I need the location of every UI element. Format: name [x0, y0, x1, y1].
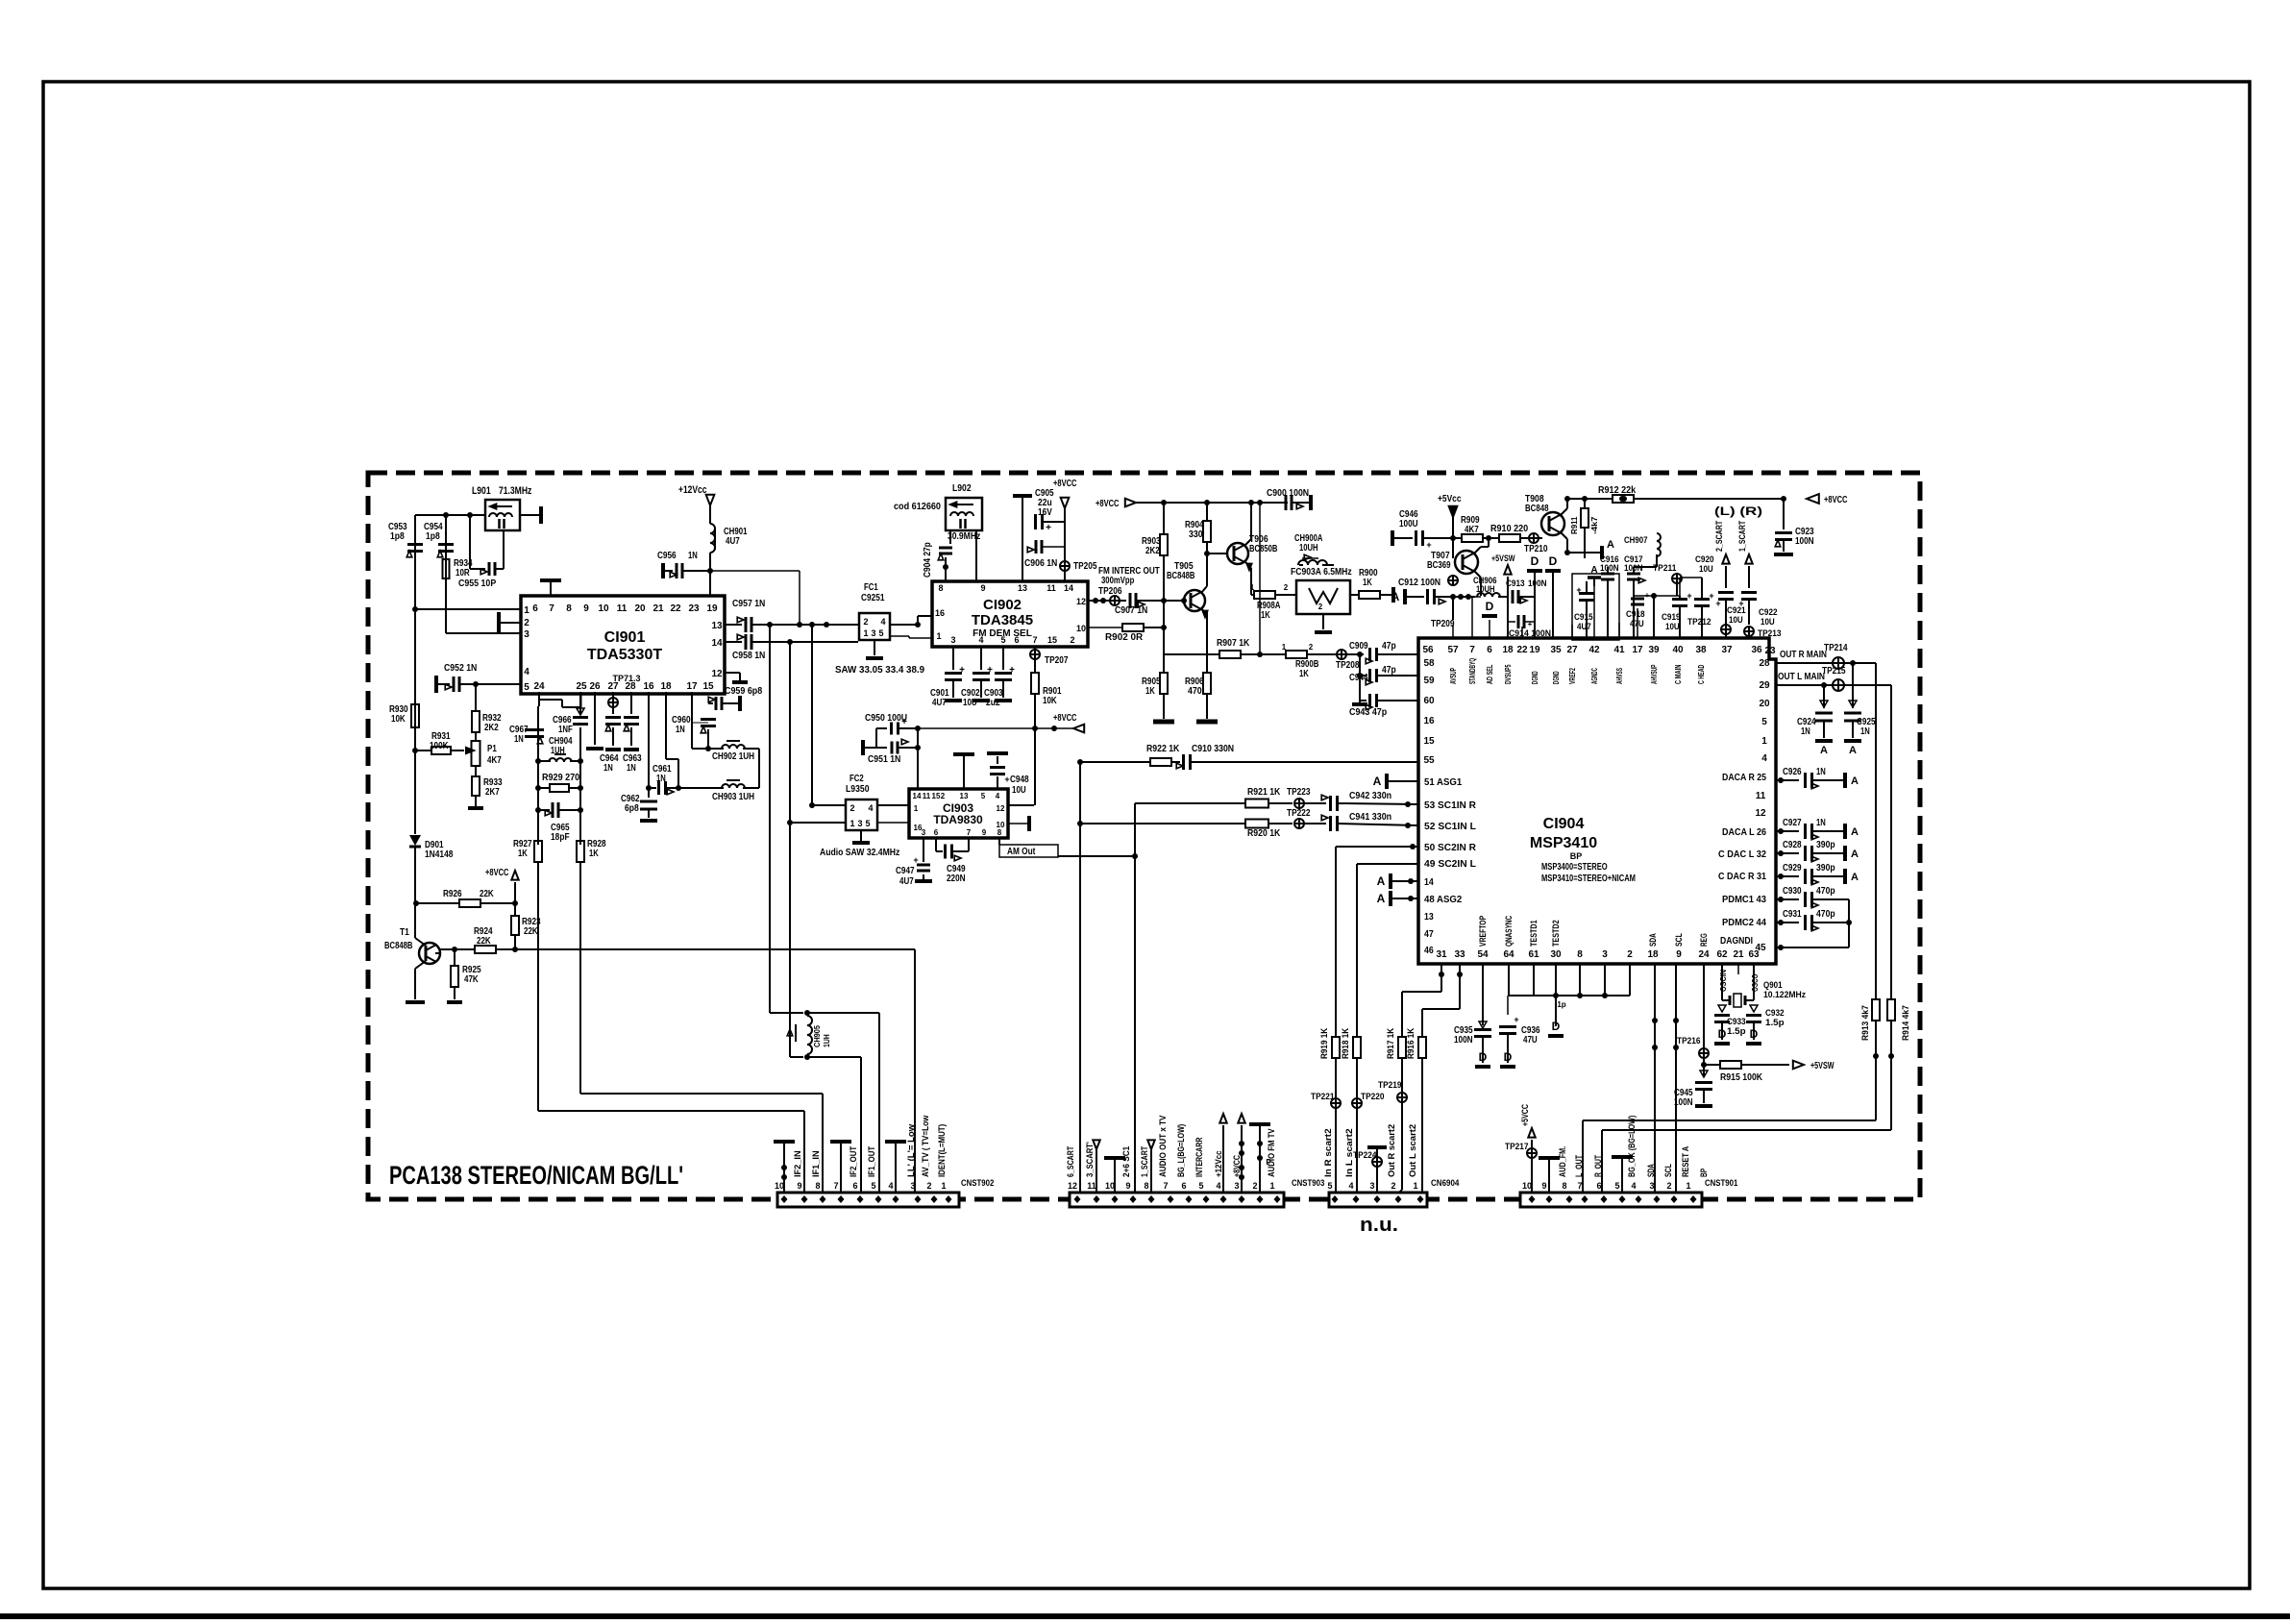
svg-text:R918 1K: R918 1K: [1341, 1027, 1350, 1059]
svg-text:55: 55: [1423, 755, 1435, 766]
svg-text:22K: 22K: [524, 926, 538, 937]
svg-text:SAW 33.05 33.4 38.9: SAW 33.05 33.4 38.9: [835, 665, 925, 676]
wire REG column to TP216: [1703, 964, 1705, 1047]
svg-text:REG: REG: [1699, 933, 1709, 947]
capacitor C907 1N: [1129, 593, 1132, 608]
svg-text:1K: 1K: [1299, 669, 1309, 679]
inductor CH903 1UH: [716, 787, 724, 789]
svg-text:2: 2: [1318, 603, 1323, 611]
svg-text:4: 4: [996, 792, 1000, 800]
resistor R914 4k7: [1887, 999, 1895, 1021]
resistor R920 1K / TP222 / capacitor C941 330n row: [1080, 823, 1246, 824]
svg-text:60: 60: [1423, 696, 1435, 706]
svg-text:1K: 1K: [518, 849, 528, 859]
svg-text:D: D: [1750, 1027, 1759, 1041]
svg-text:TP214: TP214: [1824, 643, 1848, 653]
svg-text:1: 1: [914, 804, 919, 813]
svg-text:22: 22: [1516, 645, 1528, 655]
svg-text:8: 8: [1562, 1181, 1566, 1191]
capacitor C921 10U: [1718, 591, 1734, 594]
svg-text:5: 5: [1614, 1181, 1619, 1191]
wire from C957 node down column 801: [769, 625, 771, 1013]
svg-text:2: 2: [850, 803, 854, 813]
svg-text:2K2: 2K2: [484, 723, 499, 733]
svg-text:STANDBYQ: STANDBYQ: [1467, 658, 1477, 684]
svg-text:INTERCARR: INTERCARR: [1194, 1137, 1204, 1177]
svg-text:61: 61: [1528, 949, 1539, 960]
svg-text:100N: 100N: [1674, 1097, 1693, 1108]
svg-text:A: A: [1851, 872, 1859, 883]
svg-text:6: 6: [532, 603, 538, 614]
svg-text:4U7: 4U7: [932, 698, 947, 708]
svg-text:(L) (R): (L) (R): [1714, 504, 1762, 518]
svg-text:1UH: 1UH: [823, 1034, 831, 1047]
svg-text:330: 330: [1189, 529, 1203, 540]
svg-text:D: D: [1479, 1050, 1488, 1064]
svg-text:CNST903: CNST903: [1292, 1178, 1324, 1188]
svg-text:6: 6: [1181, 1181, 1186, 1191]
svg-text:MSP3410: MSP3410: [1530, 835, 1597, 851]
svg-text:TDA3845: TDA3845: [972, 612, 1033, 628]
svg-text:AUDIO FM TV: AUDIO FM TV: [1267, 1128, 1276, 1177]
capacitor C961 1N: [649, 787, 656, 789]
svg-text:A: A: [1607, 539, 1614, 551]
capacitor C919 10U: [1672, 598, 1687, 601]
ground bar pin25: [580, 692, 582, 707]
svg-text:15: 15: [702, 681, 714, 692]
svg-text:C912 100N: C912 100N: [1398, 578, 1440, 588]
wire OUT L MAIN / TP215: [1776, 684, 1891, 686]
svg-text:4U7: 4U7: [726, 536, 740, 547]
testpoint TP220: [1352, 1098, 1362, 1108]
svg-text:A: A: [1849, 745, 1857, 756]
svg-text:23: 23: [1764, 646, 1776, 656]
svg-text:+5VCC: +5VCC: [1520, 1104, 1530, 1126]
svg-text:10K: 10K: [1043, 696, 1057, 706]
ground above CNST903 pin2: [1259, 1126, 1261, 1193]
svg-text:1p: 1p: [1557, 1000, 1565, 1009]
node C950/C951 down to CI903 pin14: [917, 728, 919, 789]
capacitor C949 220N: [935, 838, 937, 851]
svg-text:2: 2: [1391, 1181, 1395, 1191]
svg-text:3: 3: [1234, 1181, 1239, 1191]
svg-text:18: 18: [1647, 949, 1659, 960]
svg-text:3: 3: [1602, 949, 1608, 960]
wire pins 54-2 bus: [1482, 964, 1484, 996]
svg-text:6: 6: [852, 1181, 857, 1191]
svg-text:FC2: FC2: [850, 774, 864, 784]
svg-text:1N4148: 1N4148: [425, 849, 454, 860]
svg-text:+: +: [901, 717, 907, 727]
svg-text:AUDIO OUT x TV: AUDIO OUT x TV: [1158, 1116, 1168, 1177]
inductor CH901 4U7: [710, 524, 715, 553]
svg-text:TP216: TP216: [1677, 1036, 1701, 1046]
svg-text:11: 11: [617, 603, 628, 614]
diode D901 1N4148: [409, 835, 421, 846]
svg-text:D: D: [1549, 554, 1558, 568]
svg-text:BG_L(BG=LOW): BG_L(BG=LOW): [1176, 1124, 1186, 1177]
wire SCL column: [1675, 964, 1677, 1193]
svg-text:OUT L MAIN: OUT L MAIN: [1778, 672, 1825, 682]
svg-text:6: 6: [1596, 1181, 1601, 1191]
svg-text:TP220: TP220: [1361, 1092, 1385, 1101]
IC CI902 TDA3845: [932, 581, 1088, 647]
box around C915/VREF2: [1572, 574, 1619, 640]
svg-text:47p: 47p: [1382, 641, 1396, 652]
svg-text:C932: C932: [1765, 1008, 1785, 1018]
wire OUT R MAIN / TP214: [1776, 662, 1876, 664]
svg-text:2_SCART: 2_SCART: [1714, 520, 1724, 552]
svg-text:1_SCART: 1_SCART: [1737, 520, 1747, 552]
svg-text:C HEAD: C HEAD: [1696, 665, 1706, 684]
1_SCART arrow above pin8: [1147, 1140, 1154, 1149]
transistor T905 BC848B: [1184, 590, 1205, 611]
svg-text:C929: C929: [1783, 863, 1802, 874]
ground below T1: [406, 1000, 425, 1004]
svg-text:26: 26: [589, 681, 601, 692]
IC CI901 TDA5330T: [521, 596, 725, 694]
svg-text:50 SC2IN R: 50 SC2IN R: [1424, 843, 1477, 853]
svg-text:48 ASG2: 48 ASG2: [1424, 895, 1463, 905]
svg-text:10: 10: [1105, 1181, 1115, 1191]
svg-text:1N: 1N: [676, 725, 685, 735]
svg-text:C906 1N: C906 1N: [1024, 558, 1057, 569]
transistor T906 BC850B: [1227, 543, 1248, 564]
AM Out label box: [998, 838, 1000, 845]
ground CI903 pin10: [1008, 823, 1027, 824]
svg-text:A: A: [1391, 590, 1400, 603]
svg-text:CI902: CI902: [983, 597, 1022, 613]
svg-text:1.5p: 1.5p: [1765, 1018, 1785, 1027]
svg-text:18: 18: [660, 681, 672, 692]
svg-text:11: 11: [1756, 791, 1766, 801]
svg-text:64: 64: [1503, 949, 1514, 960]
svg-text:R922 1K: R922 1K: [1146, 744, 1180, 754]
svg-text:35: 35: [1550, 645, 1562, 655]
svg-text:C910 330N: C910 330N: [1192, 744, 1234, 754]
IC CI903 TDA9830: [909, 789, 1008, 838]
capacitor C936 47U: [1507, 996, 1509, 1015]
svg-text:4: 4: [1216, 1181, 1220, 1191]
svg-text:1p8: 1p8: [426, 531, 440, 542]
svg-text:31: 31: [1436, 949, 1447, 960]
testpoint TP207 / resistor R901 10K: [1034, 647, 1036, 650]
svg-text:7: 7: [1163, 1181, 1168, 1191]
svg-text:TESTD1: TESTD1: [1529, 920, 1539, 947]
svg-text:TP206: TP206: [1098, 586, 1122, 597]
svg-text:VREF2: VREF2: [1567, 668, 1577, 684]
wire CH900A down to R908A node: [1250, 575, 1252, 595]
svg-text:AGNDC: AGNDC: [1589, 668, 1599, 684]
svg-text:18: 18: [1502, 645, 1514, 655]
svg-text:R910 220: R910 220: [1490, 524, 1529, 534]
svg-text:C948: C948: [1010, 775, 1029, 785]
svg-text:TP217: TP217: [1505, 1142, 1529, 1151]
transistor T1 BC848B: [419, 943, 440, 964]
capacitor C931 470p: [1776, 922, 1799, 923]
svg-text:D: D: [1486, 600, 1494, 613]
wires Out scart2 columns: [1397, 1193, 1399, 1195]
page bottom edge strip: [0, 1613, 2290, 1619]
testpoint TP213: [1744, 627, 1754, 636]
testpoint TP205: [1060, 561, 1070, 571]
svg-text:n.u.: n.u.: [1360, 1215, 1398, 1236]
resistor R933 2K7: [475, 767, 477, 776]
svg-text:A: A: [1820, 745, 1828, 756]
svg-text:41: 41: [1613, 645, 1625, 655]
filter FC1 C9251: [859, 613, 890, 640]
svg-text:C904 27p: C904 27p: [923, 542, 933, 578]
svg-text:C959 6p8: C959 6p8: [725, 686, 763, 697]
connector CN6904: [1329, 1193, 1427, 1207]
svg-text:390p: 390p: [1816, 840, 1835, 850]
svg-text:DVSUP5: DVSUP5: [1503, 664, 1513, 684]
svg-text:FC903A 6.5MHz: FC903A 6.5MHz: [1291, 567, 1352, 578]
svg-text:+: +: [959, 665, 965, 676]
svg-text:20: 20: [634, 603, 646, 614]
svg-text:TP212: TP212: [1687, 617, 1711, 627]
svg-text:10U: 10U: [1012, 785, 1026, 796]
svg-text:4: 4: [524, 667, 529, 677]
svg-text:IF1_OUT: IF1_OUT: [867, 1145, 876, 1177]
svg-text:TP209: TP209: [1431, 619, 1455, 629]
svg-text:+: +: [1709, 591, 1713, 601]
svg-text:11: 11: [1087, 1181, 1096, 1191]
resistor R905 1K: [1163, 601, 1165, 673]
svg-text:7: 7: [1577, 1181, 1582, 1191]
svg-text:CN6904: CN6904: [1431, 1178, 1459, 1188]
wire pin16 down: [648, 692, 650, 788]
svg-text:7: 7: [967, 828, 972, 837]
long wire OUT L column: [1890, 685, 1892, 999]
ground A at pin 14: [1389, 874, 1392, 889]
svg-text:C915: C915: [1574, 612, 1593, 622]
svg-text:5: 5: [871, 1181, 875, 1191]
svg-text:2: 2: [1284, 583, 1289, 592]
svg-text:100N: 100N: [1795, 536, 1814, 547]
wire T906 collector to +8VCC: [1250, 503, 1252, 524]
svg-text:R926: R926: [443, 889, 462, 899]
wire from C958 node down column 822: [789, 642, 791, 1057]
svg-text:6: 6: [1014, 635, 1019, 645]
svg-text:TP208: TP208: [1336, 660, 1360, 671]
svg-text:1: 1: [863, 628, 868, 638]
svg-text:27: 27: [607, 681, 619, 692]
svg-text:51 ASG1: 51 ASG1: [1424, 777, 1463, 788]
svg-text:14: 14: [1424, 877, 1434, 888]
wire CH905 top to IF1_OUT column: [807, 1012, 879, 1014]
+8VCC arrow right of R901: [1051, 726, 1057, 731]
svg-text:9: 9: [1541, 1181, 1546, 1191]
svg-text:21: 21: [1733, 949, 1744, 960]
svg-text:C DAC R 31: C DAC R 31: [1718, 872, 1766, 882]
svg-text:R917 1K: R917 1K: [1386, 1027, 1395, 1059]
capacitor C958 1N: [725, 641, 742, 643]
wire IF2_IN column to R927: [803, 1111, 805, 1193]
svg-text:CI901: CI901: [604, 629, 646, 646]
capacitor C933 1.5p: [1718, 1005, 1726, 1012]
svg-text:CH907: CH907: [1624, 535, 1648, 545]
svg-text:3: 3: [857, 819, 862, 828]
svg-text:AHVSS: AHVSS: [1614, 668, 1624, 684]
svg-text:P1: P1: [487, 744, 497, 754]
svg-text:C920: C920: [1695, 554, 1714, 564]
testpoint pin27: [612, 692, 614, 698]
svg-text:45: 45: [1755, 943, 1766, 953]
svg-text:C928: C928: [1783, 840, 1802, 850]
svg-text:D: D: [1718, 1027, 1727, 1041]
connector CNST902: [777, 1193, 959, 1207]
svg-text:3: 3: [1649, 1181, 1654, 1191]
capacitor C947 4U7: [923, 838, 924, 862]
svg-text:DGND: DGND: [1530, 671, 1539, 684]
svg-text:IF1_IN: IF1_IN: [811, 1150, 821, 1177]
svg-text:8: 8: [997, 828, 1002, 837]
svg-text:20: 20: [1759, 699, 1770, 709]
svg-text:IDENT(L=MUT): IDENT(L=MUT): [937, 1124, 947, 1177]
svg-text:1N: 1N: [627, 763, 636, 774]
wire FC1 node column down to FC2: [811, 625, 813, 805]
svg-text:1N: 1N: [1816, 767, 1826, 777]
wire L901 bus: [415, 514, 485, 516]
resistor R900 1K: [1350, 594, 1359, 596]
svg-text:+: +: [1426, 540, 1431, 550]
capacitor C964 1N: [612, 707, 614, 714]
capacitor C945 100N: [1700, 1070, 1708, 1077]
svg-text:SCL: SCL: [1674, 933, 1684, 947]
ground A above C915: [1588, 576, 1601, 579]
svg-text:470: 470: [1188, 686, 1202, 697]
svg-text:2: 2: [1252, 1181, 1257, 1191]
svg-text:+: +: [987, 665, 993, 676]
svg-text:Audio SAW 32.4MHz: Audio SAW 32.4MHz: [820, 848, 899, 858]
svg-text:C942 330n: C942 330n: [1349, 791, 1391, 801]
svg-text:MSP3400=STEREO: MSP3400=STEREO: [1541, 862, 1608, 873]
svg-text:13: 13: [1018, 583, 1027, 593]
svg-text:10U: 10U: [1665, 622, 1680, 631]
svg-text:16V: 16V: [1038, 507, 1052, 518]
svg-text:62: 62: [1716, 949, 1728, 960]
svg-text:TP219: TP219: [1378, 1080, 1402, 1090]
svg-text:5: 5: [878, 628, 883, 638]
resistor R921 1K / TP223 / capacitor C942 330n row: [1135, 802, 1246, 804]
svg-text:OSCIN: OSCIN: [1719, 970, 1728, 992]
svg-text:40: 40: [1672, 645, 1684, 655]
svg-text:BC369: BC369: [1427, 560, 1451, 571]
svg-text:R921 1K: R921 1K: [1247, 787, 1281, 798]
wire R912 column to C912 row: [1452, 499, 1454, 538]
wire OUT R return to L_OUT column: [1583, 1120, 1876, 1121]
svg-text:4: 4: [1761, 753, 1767, 764]
svg-text:7: 7: [1469, 645, 1475, 655]
filter FC2 L9350: [846, 800, 877, 830]
wire C930/C931 to pin45: [1848, 899, 1850, 947]
wire C961 to CH903: [677, 787, 679, 789]
svg-text:TDA9830: TDA9830: [933, 813, 983, 826]
svg-text:R920 1K: R920 1K: [1247, 828, 1281, 839]
wire R907 node column: [1259, 503, 1261, 654]
svg-text:1: 1: [1413, 1181, 1417, 1191]
capacitor C904 27p: [949, 530, 951, 544]
svg-text:R_OUT: R_OUT: [1593, 1155, 1603, 1177]
svg-text:1N: 1N: [1860, 726, 1870, 737]
svg-text:R907 1K: R907 1K: [1217, 638, 1250, 649]
filter FC903A 6.5MHz: [1296, 580, 1350, 614]
capacitor C906 1N: [1022, 522, 1023, 547]
svg-text:13: 13: [1424, 912, 1434, 923]
svg-text:22K: 22K: [480, 889, 494, 899]
wire 2_SCART/1_SCART caps to pins: [1725, 634, 1727, 638]
ground on CI901 top: [550, 580, 552, 596]
svg-text:IF2_OUT: IF2_OUT: [849, 1145, 858, 1177]
svg-text:3: 3: [950, 635, 955, 645]
svg-text:100N: 100N: [1600, 563, 1619, 573]
svg-text:-4k7: -4k7: [1590, 516, 1599, 534]
svg-text:CH902 1UH: CH902 1UH: [712, 751, 754, 762]
svg-text:54: 54: [1477, 949, 1489, 960]
svg-text:10.122MHz: 10.122MHz: [1763, 990, 1807, 999]
+12Vcc arrow above pin4: [1219, 1114, 1226, 1123]
svg-text:C951 1N: C951 1N: [868, 754, 900, 765]
svg-text:47U: 47U: [1523, 1035, 1538, 1046]
svg-text:24: 24: [1698, 949, 1710, 960]
svg-text:AD SEL: AD SEL: [1485, 665, 1494, 684]
resistor R915 100K: [1704, 1064, 1720, 1066]
resistor R906 470: [1206, 612, 1208, 673]
svg-text:8: 8: [815, 1181, 820, 1191]
resistor R911 4k7: [1584, 499, 1586, 507]
svg-text:+: +: [1009, 665, 1015, 676]
svg-text:A: A: [1373, 775, 1382, 788]
svg-text:71.3MHz: 71.3MHz: [499, 485, 532, 497]
svg-text:5: 5: [1198, 1181, 1203, 1191]
svg-text:AM Out: AM Out: [1007, 847, 1036, 857]
resistor R934 10R: [443, 559, 450, 578]
capacitor C918 47U: [1631, 598, 1644, 601]
svg-text:TESTD2: TESTD2: [1551, 920, 1561, 947]
ground above CI903 pin13: [963, 756, 965, 789]
svg-text:1K: 1K: [1363, 578, 1372, 588]
svg-text:6: 6: [934, 828, 939, 837]
svg-text:6_SCART: 6_SCART: [1066, 1145, 1075, 1177]
svg-text:+: +: [1738, 599, 1743, 608]
svg-text:C943 47p: C943 47p: [1349, 707, 1387, 718]
svg-text:24: 24: [533, 681, 545, 692]
resistor R924 22K: [475, 946, 496, 953]
svg-text:10K: 10K: [391, 714, 406, 725]
schematic dashed boundary box: [368, 473, 1920, 1199]
svg-text:A: A: [1377, 892, 1386, 905]
svg-text:BP: BP: [1699, 1169, 1709, 1177]
svg-text:C9251: C9251: [861, 593, 885, 603]
svg-text:R919 1K: R919 1K: [1319, 1027, 1329, 1059]
svg-text:1: 1: [936, 631, 941, 641]
svg-text:9: 9: [1125, 1181, 1130, 1191]
svg-text:AVSUP: AVSUP: [1448, 668, 1458, 684]
resistor R928 1K: [577, 841, 584, 862]
capacitor C948 10U: [997, 776, 998, 789]
svg-text:47p: 47p: [1382, 665, 1396, 676]
svg-text:10UH: 10UH: [1299, 543, 1318, 554]
ground below FC1: [874, 640, 875, 655]
connector CNST903: [1070, 1193, 1284, 1207]
svg-text:TP215: TP215: [1822, 666, 1846, 677]
svg-text:58: 58: [1423, 658, 1435, 669]
svg-text:9: 9: [980, 583, 985, 593]
svg-text:6: 6: [1487, 645, 1492, 655]
svg-text:L901: L901: [472, 485, 491, 497]
svg-text:42: 42: [1588, 645, 1600, 655]
